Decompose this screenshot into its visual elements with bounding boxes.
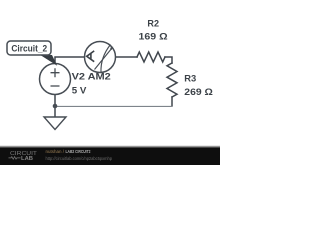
- wire: junction to ground stub: [54, 106, 56, 117]
- node junction dot: [53, 104, 58, 109]
- ground: [44, 117, 66, 130]
- svg-text:Circuit_2: Circuit_2: [11, 42, 47, 53]
- wire: R3 bottom stub: [171, 97, 173, 106]
- voltage source V2 body: [40, 64, 71, 95]
- ammeter AM2 body: [85, 42, 116, 73]
- node label Circuit_2 box: [7, 41, 51, 55]
- svg-text:LAB: LAB: [21, 156, 33, 162]
- ammeter needle: [95, 48, 113, 70]
- svg-text:LAB2 CIRCUIT2: LAB2 CIRCUIT2: [66, 149, 91, 154]
- ammeter scale arc: [101, 45, 111, 73]
- resistor R3 body: [167, 63, 177, 97]
- resistor R2 body: [137, 52, 165, 62]
- svg-text:nutshan /: nutshan /: [46, 149, 65, 154]
- wire: V2 top terminal up and right to ammeter: [55, 57, 84, 63]
- ammeter letter A: [87, 51, 95, 62]
- wire: R2 to top-right corner, down to R3: [165, 57, 172, 63]
- wire: bottom return wire: [56, 105, 172, 107]
- ammeter needle arrowhead: [110, 47, 113, 50]
- svg-text:R3: R3: [184, 74, 196, 85]
- svg-text:V2: V2: [72, 71, 85, 82]
- watermark bar: [0, 145, 220, 148]
- watermark logo squiggle: [9, 157, 21, 160]
- svg-text:http://circuitlab.com/c/np2abc: http://circuitlab.com/c/np2abc5pxmhp: [46, 156, 113, 161]
- svg-text:5 V: 5 V: [72, 85, 87, 96]
- node label Circuit_2 tail: [40, 55, 58, 66]
- V2 plus sign: [51, 68, 60, 77]
- wire: V2 bottom terminal to junction: [54, 95, 56, 106]
- svg-text:AM2: AM2: [88, 71, 111, 82]
- svg-text:R2: R2: [147, 18, 159, 29]
- V2 minus sign: [51, 85, 60, 87]
- svg-text:269 Ω: 269 Ω: [184, 87, 213, 98]
- wire: ammeter right to R2: [116, 56, 137, 58]
- svg-text:169 Ω: 169 Ω: [139, 31, 169, 42]
